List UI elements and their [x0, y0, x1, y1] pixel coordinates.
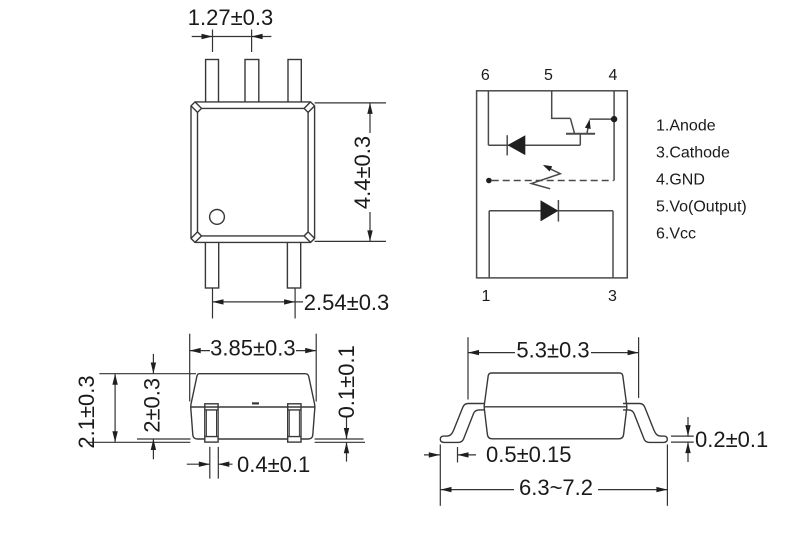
wire pin4 vertical	[613, 91, 615, 181]
corner bevel lines bottom-left	[191, 232, 202, 243]
svg-text:2.54±0.3: 2.54±0.3	[304, 290, 389, 315]
svg-text:1.Anode: 1.Anode	[656, 118, 716, 135]
wire base drop	[579, 134, 581, 146]
svg-text:0.1±0.1: 0.1±0.1	[334, 345, 359, 418]
dim 1.27 extension line left	[212, 30, 214, 53]
LED cathode bar	[557, 200, 559, 222]
dim 3.85 arrow right	[305, 348, 316, 353]
body bottom extension left	[137, 438, 191, 440]
dim 0.1 arrow bottom	[344, 442, 349, 453]
dim 0.5 extension line right	[457, 447, 459, 463]
side parting line	[484, 406, 627, 408]
dim 6.3 extension line right	[666, 445, 668, 506]
dim 2 arrow tails	[152, 354, 154, 459]
dim 1.27 arrow left	[202, 34, 213, 39]
svg-text:4.GND: 4.GND	[656, 172, 705, 189]
side body outline	[484, 373, 627, 439]
pin 1 marker circle	[210, 210, 225, 225]
svg-text:5.3±0.3: 5.3±0.3	[516, 338, 589, 363]
LED D1 triangle	[541, 200, 559, 221]
dim 6.3 dimension line	[441, 489, 668, 491]
dim 0.5 arrow tails	[424, 454, 476, 456]
schematic box	[477, 91, 628, 278]
svg-text:0.4±0.1: 0.4±0.1	[237, 452, 310, 477]
dim 0.1 arrow tails	[346, 418, 348, 462]
transistor Q1 base bar	[566, 133, 595, 135]
svg-text:5: 5	[544, 67, 553, 84]
transistor Q1 collector diagonal	[570, 118, 574, 133]
pin P2 top lead	[245, 60, 259, 104]
dim 2.54 arrow right	[284, 299, 295, 304]
wire emitter to pin4	[589, 118, 614, 120]
dim 6.3 arrow left	[441, 487, 452, 492]
dim 4.4 extension line bottom	[315, 240, 386, 242]
front right leg	[288, 404, 301, 442]
dim 2.54 dimension line	[213, 301, 304, 303]
corner bevel lines bottom-right	[304, 232, 315, 243]
dim 0.1 arrow top	[344, 428, 349, 439]
dim 0.2 arrow bottom	[685, 442, 690, 453]
pin P1 top lead	[206, 60, 219, 104]
dim 2.1 arrow bottom	[112, 431, 117, 442]
svg-text:3.85±0.3: 3.85±0.3	[210, 336, 295, 361]
pin P4 bottom lead	[205, 240, 218, 288]
dim 4.4 arrow bottom	[367, 230, 372, 241]
side right lead outline	[623, 404, 667, 443]
pin P3 top lead	[288, 60, 301, 104]
dim 6.3 arrow right	[656, 487, 667, 492]
side left lead outline	[440, 404, 484, 443]
dim 3.85 extension line right	[315, 334, 317, 402]
package body inner outline	[198, 108, 309, 235]
dim 2.54 extension line right	[294, 289, 296, 319]
wire pin6 vertical	[487, 91, 489, 145]
dim 3.85 arrow left	[190, 348, 201, 353]
dim 3.85 dimension line	[190, 350, 317, 352]
diode D2 cathode bar	[506, 135, 508, 155]
svg-text:6: 6	[481, 67, 490, 84]
dim 1.27 dimension line	[192, 36, 272, 38]
dim 2.54 extension line left	[212, 289, 214, 319]
svg-text:3.Cathode: 3.Cathode	[656, 145, 730, 162]
dim 1.27 extension line right	[251, 30, 253, 53]
dim 2 arrow bottom	[151, 439, 156, 450]
seating plane line left	[87, 441, 191, 443]
node dot left	[486, 178, 492, 184]
dim 0.4 arrow left	[199, 462, 210, 467]
corner bevel lines top-right	[304, 102, 315, 113]
dim 1.27 arrow right	[252, 34, 263, 39]
dim 2.1 arrow top	[112, 374, 117, 385]
front body outline	[191, 374, 315, 439]
dim 0.2 arrow top	[685, 425, 690, 436]
seating plane line right	[315, 441, 365, 443]
dim 0.5 arrow right	[458, 452, 469, 457]
dim 0.2 arrow tails	[687, 417, 689, 462]
dim 4.4 extension line top	[315, 102, 386, 104]
dim 5.3 extension line right	[638, 337, 640, 398]
svg-text:5.Vo(Output): 5.Vo(Output)	[656, 199, 747, 216]
diode D2 triangle	[507, 135, 525, 155]
svg-text:4.4±0.3: 4.4±0.3	[350, 136, 375, 209]
dim 0.2 extension lines	[671, 436, 694, 442]
front mid mark	[252, 402, 259, 404]
front right leg inner lines	[288, 410, 301, 437]
svg-text:2.1±0.3: 2.1±0.3	[74, 375, 99, 448]
wire LED right vertical	[612, 211, 614, 278]
svg-text:3: 3	[608, 288, 617, 305]
wire LED left vertical	[488, 211, 490, 278]
dim 0.5 arrow left	[429, 452, 440, 457]
junction dot pin4	[611, 116, 617, 122]
svg-text:6.Vcc: 6.Vcc	[656, 226, 696, 243]
dim 5.3 dimension line	[468, 352, 639, 354]
svg-text:1.27±0.3: 1.27±0.3	[188, 5, 273, 30]
dim 4.4 arrow top	[367, 103, 372, 114]
svg-text:6.3~7.2: 6.3~7.2	[519, 475, 593, 500]
dim 2.54 arrow left	[213, 299, 224, 304]
light zigzag arrowhead	[543, 165, 552, 172]
package body outer outline	[191, 102, 315, 243]
dim 0.4 arrow tails	[187, 463, 233, 465]
dim 6.3 extension line left	[439, 445, 441, 506]
front left leg inner lines	[205, 410, 218, 437]
front parting line	[191, 406, 315, 408]
dim 4.4 dimension line	[369, 103, 371, 242]
dim 0.4 extension lines	[210, 447, 219, 479]
wire diode row	[488, 144, 580, 146]
wire LED row	[489, 210, 613, 212]
dim 5.3 arrow left	[468, 350, 479, 355]
front left leg	[205, 404, 218, 442]
corner bevel lines top-left	[191, 102, 202, 113]
dim 5.3 arrow right	[628, 350, 639, 355]
dim 2.1 extension line top	[99, 373, 196, 375]
svg-text:4: 4	[608, 67, 617, 84]
body bottom extension right	[315, 438, 364, 440]
svg-text:2±0.3: 2±0.3	[140, 378, 165, 433]
wire pin5	[552, 91, 571, 119]
svg-text:0.2±0.1: 0.2±0.1	[695, 427, 768, 452]
dim 5.3 extension line left	[467, 337, 469, 399]
pin P5 bottom lead	[287, 240, 300, 288]
svg-text:0.5±0.15: 0.5±0.15	[486, 442, 571, 467]
transistor Q1 emitter arrowhead	[585, 120, 591, 129]
dim 3.85 extension line left	[189, 334, 191, 402]
dashed light path	[492, 180, 614, 182]
dim 0.4 arrow right	[218, 462, 229, 467]
svg-text:1: 1	[482, 288, 491, 305]
dim 2.1 dimension line	[114, 374, 116, 443]
light zigzag arrow shaft	[531, 166, 560, 189]
dim 2 arrow top	[151, 363, 156, 374]
transistor Q1 emitter diagonal	[587, 121, 590, 134]
